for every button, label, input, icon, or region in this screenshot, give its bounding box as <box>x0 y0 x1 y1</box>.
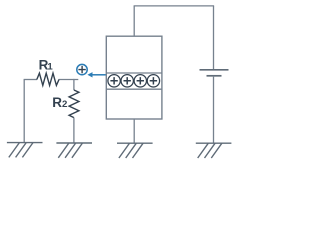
node plus sign <box>78 66 85 73</box>
node: positive node circle <box>77 64 87 74</box>
wire: left vertical from R1 input down to ground <box>23 80 25 143</box>
wire: R2 branch upper segment <box>73 79 75 90</box>
band line top <box>106 72 162 74</box>
wire: from box top up <box>133 6 135 36</box>
ground 4 (below battery) <box>196 143 232 158</box>
battery BT1 long plate <box>200 69 229 71</box>
battery BT1 short plate <box>207 75 222 77</box>
wire: horizontal wire from R1 to node <box>59 79 79 81</box>
positive charge 1 <box>108 75 120 87</box>
resistor R2 <box>69 90 79 118</box>
wire: top horizontal <box>134 5 215 7</box>
component box (charged device) <box>106 36 162 119</box>
arrow: blue annotation arrow from box to node <box>87 72 106 77</box>
wire: right vertical down to battery <box>213 6 215 70</box>
svg-text:R1: R1 <box>39 57 54 72</box>
wire: R2 branch lower segment down to ground <box>73 118 75 143</box>
positive charge 3 <box>134 75 146 87</box>
ground 1 (left) <box>7 143 43 158</box>
positive charge 2 <box>121 75 133 87</box>
svg-text:R2: R2 <box>52 95 67 110</box>
wire: from box bottom down to ground <box>133 119 135 143</box>
positive charge 4 <box>147 75 159 87</box>
wire: battery bottom to ground <box>213 76 215 143</box>
ground 3 (below box) <box>117 143 153 158</box>
band line bottom <box>106 88 162 90</box>
wire: horizontal input wire left of R1 <box>24 79 37 81</box>
resistor R1 <box>37 73 59 85</box>
ground 2 (below R2) <box>56 143 92 158</box>
